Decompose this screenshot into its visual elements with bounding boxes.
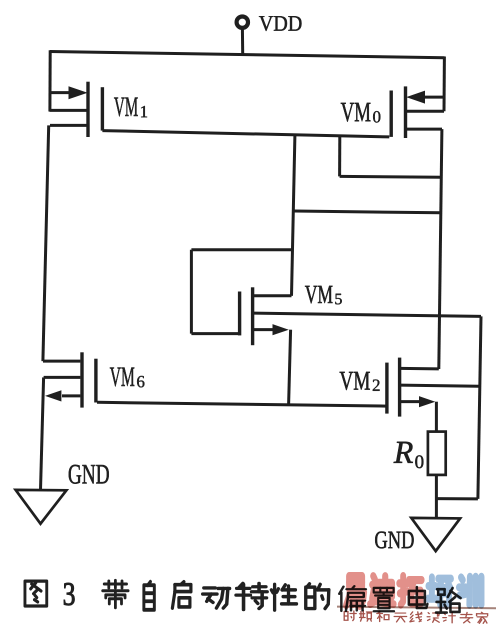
wire : VM5 gate feedback box top	[191, 248, 292, 251]
wire : tap from gate bus down to VM5 drain	[292, 136, 295, 296]
node label VDD	[259, 16, 301, 31]
label GND left	[69, 465, 109, 484]
wire : VM5 gate feedback box bottom	[191, 332, 240, 335]
transistor VM2 (NMOS, gate on left side, mirrored)	[387, 358, 479, 417]
watermark logo 易迪拓培训	[346, 576, 481, 606]
ground GND right symbol	[411, 518, 460, 551]
wire : far right column down to R0 foot	[478, 316, 481, 499]
wire : VM5 gate feedback box left	[190, 250, 193, 334]
watermark underline	[337, 607, 496, 609]
wire : right rail from VDD down to VM0 source	[443, 57, 446, 112]
wire : left rail from VDD down to VM1 source	[48, 50, 51, 111]
label VM0	[341, 103, 381, 123]
wire : horizontal link to VM0 drain column	[340, 175, 442, 179]
ground GND left symbol	[16, 490, 67, 524]
transistor VM1 (PMOS, gate on right side)	[50, 82, 103, 137]
transistor VM0 (PMOS, gate on left side, mirrored)	[391, 86, 444, 138]
wire : VM1 drain down the left side to VM6 drain	[43, 125, 49, 361]
wire : gate bus VM1 gate to VM0 gate	[102, 131, 389, 137]
wire : VM5 source lead long line to far right column	[253, 313, 481, 316]
label VM6	[110, 368, 145, 388]
wire : junction link from R0 foot to far right column	[436, 497, 478, 500]
transistor VM5 (gate on left side)	[240, 287, 292, 345]
label VM5	[305, 286, 342, 304]
wire : tap from gate bus down toward VM0 drain	[338, 137, 341, 177]
wire : VM6 source down to ground	[41, 377, 44, 490]
wire : gate bus VM6 gate to VM2 gate	[97, 402, 387, 406]
label R0	[394, 442, 424, 468]
watermark slogan 射频和天线设计专家	[344, 611, 487, 624]
label GND right	[375, 532, 414, 549]
wire : VDD top rail	[50, 52, 445, 58]
resistor R0	[428, 432, 446, 475]
label VM2	[340, 372, 380, 391]
wire : VM0 drain down to VM2 drain	[439, 129, 442, 369]
label VM1	[114, 98, 147, 118]
wire : crossing link from VM5 drain tap to VM0 drain column	[294, 211, 441, 213]
transistor VM6 (NMOS, gate on right side)	[43, 352, 96, 407]
node VDD terminal	[237, 17, 248, 54]
caption text 图3 带自启动特性的偏置电路	[25, 580, 461, 612]
wire : VM2 source down to resistor R0	[435, 402, 438, 432]
wire : R0 bottom down to ground	[435, 475, 438, 518]
wire : VM5 source down to gate bus of VM6/VM2	[289, 330, 291, 405]
